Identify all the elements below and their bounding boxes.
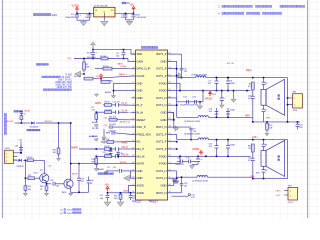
wire PVDD rail ch2 [172, 156, 251, 164]
resistor R12 18K ch2 [96, 153, 112, 157]
svg-text:GND: GND [161, 184, 167, 188]
svg-text:28: 28 [169, 82, 171, 84]
svg-text:15: 15 [169, 177, 171, 179]
svg-text:BST2_N: BST2_N [156, 191, 166, 195]
capacitor C2 104 [121, 13, 128, 19]
wire VDD supply [93, 49, 136, 54]
wire RESET row [103, 117, 131, 124]
svg-text:4: 4 [133, 74, 134, 76]
wire avdd rail [107, 186, 132, 194]
svg-text:BST1_N: BST1_N [156, 125, 166, 129]
net label MUTE2 [45, 121, 53, 123]
svg-text:VO: VO [111, 10, 114, 12]
power port VCCIN [72, 5, 80, 12]
svg-text:1: 1 [290, 191, 291, 193]
capacitor C22 472 zobel2 [248, 152, 255, 177]
capacitor C21 100M ch2 [226, 139, 235, 157]
svg-text:C30: C30 [15, 145, 18, 147]
power gray arrow above VDD [91, 42, 96, 50]
capacitor C9 103 [172, 127, 197, 140]
svg-text:GND: GND [137, 176, 143, 180]
label dual channel mode [36, 63, 48, 65]
svg-text:1K: 1K [40, 189, 43, 191]
ground below U1 [101, 17, 108, 26]
svg-text:NC: NC [24, 113, 27, 115]
svg-text:C13 475: C13 475 [105, 153, 112, 155]
resistor R10 18K ch1 [96, 109, 112, 113]
svg-text:16: 16 [169, 169, 171, 171]
svg-text:FREQ: FREQ [122, 142, 128, 144]
net label MUTE1 [6, 121, 31, 124]
svg-text:SP1: SP1 [293, 92, 298, 94]
note transistor sub 2 [60, 212, 81, 215]
svg-text:IN_P: IN_P [137, 103, 143, 107]
svg-text:18: 18 [169, 155, 171, 157]
svg-text:102: 102 [208, 83, 212, 85]
svg-text:1: 1 [294, 98, 295, 100]
resistor R8 18K ch1 [105, 102, 112, 107]
svg-text:9014: 9014 [67, 210, 73, 212]
svg-text:R12 NC: R12 NC [92, 128, 99, 130]
connector P4 speaker2 [284, 185, 297, 204]
wire connector to diode row [13, 159, 17, 161]
svg-text:5: 5 [133, 82, 134, 84]
power port +5V [130, 3, 136, 13]
capacitor EC7 220uF/35V [65, 13, 81, 20]
svg-text:100M: 100M [230, 109, 235, 111]
svg-text:7: 7 [133, 96, 134, 98]
svg-text:AGND: AGND [105, 91, 112, 94]
svg-text:EC4: EC4 [87, 53, 91, 55]
svg-text:R11 47K: R11 47K [109, 117, 117, 119]
inductor L2 [177, 75, 246, 79]
label mute circuit [27, 129, 40, 131]
svg-text:+: + [201, 158, 203, 161]
speaker SP1 [261, 79, 285, 119]
svg-text:10R: 10R [269, 128, 273, 130]
svg-text:103: 103 [299, 127, 302, 129]
wire OTW row [95, 66, 132, 70]
svg-text:4.: 4. [218, 12, 220, 16]
capacitor EC1 470uF/10V [131, 13, 147, 19]
label PVDD ch2 [192, 149, 203, 155]
svg-text:+5V: +5V [67, 58, 71, 60]
capacitor C12 electrolytic [177, 76, 204, 107]
svg-text:FAULT: FAULT [137, 74, 146, 78]
ground decoupling ch2 [190, 165, 198, 169]
svg-text:C17: C17 [107, 167, 110, 169]
svg-text:JP14: JP14 [288, 202, 293, 204]
capacitor C16c filter [116, 152, 123, 156]
label vertical caption left border [4, 114, 6, 135]
svg-text:OUT2_N: OUT2_N [156, 169, 167, 173]
resistor R40 10K column [53, 122, 61, 161]
svg-text:105: 105 [132, 198, 135, 200]
svg-text:L5 RB1047-102M: L5 RB1047-102M [192, 181, 208, 183]
wire Q1 collector [44, 160, 52, 173]
svg-text:OUT2_N: OUT2_N [156, 176, 167, 180]
net label AVDD [124, 189, 130, 192]
svg-text:14: 14 [132, 147, 134, 149]
svg-text:OUT1_P: OUT1_P [156, 67, 167, 71]
capacitor C10 bst cap [172, 178, 179, 184]
capacitor C9b 100M [226, 108, 235, 118]
wire speaker2 bottom rail [250, 176, 288, 179]
svg-text:R15 47K: R15 47K [102, 139, 110, 141]
svg-text:29: 29 [169, 74, 171, 76]
wire speaker2 top rail [246, 139, 288, 141]
svg-text:13: 13 [132, 140, 134, 142]
diode D11 1N4148 [17, 152, 28, 168]
power +5V avdd [105, 185, 110, 193]
svg-text:C12 475: C12 475 [105, 109, 112, 111]
svg-text:OUT2_P: OUT2_P [156, 147, 167, 151]
ground EC2 [220, 104, 224, 108]
svg-text:VDD: VDD [137, 52, 143, 56]
net label LSP+ [252, 137, 258, 139]
svg-text:3: 3 [6, 161, 7, 163]
note transistor sub 1 [60, 209, 81, 212]
svg-text:21: 21 [169, 133, 171, 135]
net label LSP- connector [276, 195, 281, 197]
svg-text:100M: 100M [230, 144, 235, 146]
transistor Q2 8050 [62, 179, 73, 194]
svg-text:14: 14 [169, 184, 171, 186]
wire PVDD rail ch1 [172, 83, 251, 91]
inductor bead top speaker2 [262, 140, 267, 151]
net label LSP+ connector [276, 190, 282, 192]
svg-text:MUTE2: MUTE2 [45, 121, 53, 123]
capacitor EC3 ch2 [196, 156, 203, 164]
svg-text:104: 104 [81, 181, 84, 183]
svg-text:TPA3117: TPA3117 [149, 200, 159, 203]
svg-text:RSP-: RSP- [245, 116, 251, 118]
power +5V label fault [95, 73, 128, 78]
ground arrow right ch1 [176, 73, 182, 78]
wire U1 output rail [115, 13, 134, 15]
power +5V label row gain [67, 58, 128, 60]
svg-text:2: 2 [294, 105, 295, 107]
svg-text:9014: 9014 [34, 172, 38, 174]
svg-text:TPA3117: TPA3117 [132, 200, 142, 203]
svg-text:30: 30 [169, 67, 171, 69]
svg-text:OUT1_N: OUT1_N [156, 96, 167, 100]
svg-text:GND: GND [137, 89, 143, 93]
capacitor C16b 475 ch2 [112, 154, 132, 158]
wire speaker2 right vertical [287, 140, 289, 179]
resistor R13 47K vertical [92, 156, 99, 171]
svg-text:L8: L8 [265, 145, 267, 147]
svg-text:3: 3 [133, 67, 134, 69]
svg-text:103: 103 [191, 197, 194, 199]
capacitor C19 103 [172, 176, 188, 192]
net label RSP+ [246, 70, 253, 72]
ground arrow down bst2 [172, 180, 180, 186]
note 10R 2W [227, 63, 234, 65]
capacitor EC4 470uF/16V [87, 50, 98, 60]
svg-text:LSP+: LSP+ [276, 190, 282, 192]
svg-text:+PVDD: +PVDD [192, 149, 200, 151]
svg-text:IN_P: IN_P [122, 103, 128, 105]
svg-text:6: 6 [133, 89, 134, 91]
svg-text:NC: NC [137, 140, 141, 144]
svg-text:AGND: AGND [92, 121, 98, 124]
resistor branch mute [20, 111, 31, 123]
wire speaker1 right vertical [287, 78, 289, 122]
svg-text:104: 104 [116, 56, 119, 58]
svg-text:DPW_CLIP: DPW_CLIP [137, 67, 151, 71]
wire into GAIN pin [117, 59, 132, 66]
capacitor C33 104 [46, 180, 64, 187]
svg-text:+5V: +5V [95, 76, 99, 78]
svg-text:20: 20 [169, 140, 171, 142]
svg-text:472: 472 [248, 98, 251, 100]
svg-text:MUTE: MUTE [120, 162, 127, 164]
resistor R4 NC [101, 79, 114, 84]
speaker SP2 [256, 140, 285, 176]
svg-text:OUT2_P: OUT2_P [156, 140, 167, 144]
svg-text:C15: C15 [186, 157, 191, 159]
svg-text:R5 20K: R5 20K [100, 56, 107, 58]
svg-text:103: 103 [184, 71, 187, 73]
capacitor C6 103 [180, 54, 188, 78]
label small signal note [98, 173, 113, 175]
svg-text:8: 8 [133, 104, 134, 106]
svg-text:BST1_P: BST1_P [156, 52, 166, 56]
svg-text:104: 104 [56, 186, 59, 188]
gain table note [42, 73, 73, 90]
svg-text:16: 16 [132, 162, 134, 164]
note line 3 [218, 5, 305, 9]
gray arrow left [75, 71, 85, 77]
svg-text:LSP-: LSP- [276, 195, 281, 197]
svg-text:104: 104 [113, 167, 116, 169]
resistor R21 1K3 [114, 193, 122, 201]
svg-text:AGND: AGND [98, 168, 104, 171]
svg-text:Q1: Q1 [60, 210, 64, 212]
wire GND pins to AGND [113, 83, 132, 94]
svg-text:OUT1_N: OUT1_N [156, 103, 167, 107]
svg-text:103: 103 [184, 186, 187, 188]
svg-text:L6: L6 [265, 83, 267, 85]
svg-text:R2 NC: R2 NC [103, 66, 109, 68]
svg-text:MUTE: MUTE [137, 162, 145, 166]
label AGND column [92, 135, 98, 141]
net label AMPR [71, 146, 105, 149]
svg-text:SP1: SP1 [267, 118, 271, 120]
ground below EC7 C1 [77, 20, 90, 25]
ground arrow under C12 C13 [198, 101, 203, 109]
svg-text:SP2: SP2 [256, 172, 260, 174]
svg-text:MUTE: MUTE [25, 111, 31, 113]
svg-text:23: 23 [169, 118, 171, 120]
svg-text:PW4148: PW4148 [17, 166, 24, 168]
net label IN1_P [122, 103, 128, 105]
capacitor EC2 100uF/35V [212, 90, 226, 104]
svg-text:R8 18: R8 18 [105, 102, 110, 104]
capacitor C14 electrolytic ch2 [175, 157, 196, 166]
svg-text:9: 9 [133, 111, 134, 113]
svg-text:R9 18: R9 18 [105, 146, 110, 148]
svg-text:+5V: +5V [103, 118, 107, 120]
svg-text:IN2_P: IN2_P [122, 147, 129, 149]
svg-text:IN_M: IN_M [122, 111, 128, 113]
svg-text:11: 11 [132, 126, 134, 128]
svg-text:27: 27 [169, 89, 171, 91]
wire MUTE to pin [79, 162, 132, 164]
label PVDD ch1 [205, 91, 213, 101]
svg-text:IN2_P: IN2_P [137, 147, 145, 151]
inductor L5 [177, 176, 253, 183]
resistor R14 10R zobel floor1 [265, 122, 273, 136]
wire MUTE from Q2 collector [70, 122, 80, 179]
svg-text:12: 12 [132, 133, 134, 135]
svg-text:U1 HT7550-SH: U1 HT7550-SH [94, 6, 108, 8]
svg-text:FAULTx: FAULTx [119, 73, 128, 76]
ground decoupling ch1 [231, 90, 236, 102]
capacitor C16 102 [208, 108, 218, 118]
svg-text:10: 10 [132, 118, 134, 120]
capacitor C1 104 [85, 13, 91, 20]
resistor R15 47K freq row [101, 139, 132, 144]
svg-text:AGND: AGND [89, 135, 96, 138]
resistor R16 NC zobel2 [248, 144, 254, 152]
label input voltage note [34, 13, 58, 17]
resistor R37 base Q1 [28, 175, 40, 179]
capacitor C41 104 [100, 193, 110, 201]
svg-text:25: 25 [169, 104, 171, 106]
wire OUT1N bus [172, 98, 178, 117]
label caption above mute row [14, 110, 23, 112]
wire speaker1 top rail [246, 77, 288, 79]
capacitor C8 100M [226, 77, 235, 91]
resistor R38 emitter Q1 [40, 182, 49, 196]
svg-text:13: 13 [169, 191, 171, 193]
svg-text:10U 2W: 10U 2W [227, 63, 234, 65]
regulator U1 HT7550-SH [94, 6, 115, 17]
svg-text:VD1N4148: VD1N4148 [30, 126, 39, 128]
capacitor C17 104 [98, 167, 132, 174]
svg-text:IN2_M: IN2_M [137, 154, 146, 158]
label AGND mid [89, 129, 106, 140]
svg-text:1: 1 [6, 154, 7, 156]
svg-text:24V: 24V [52, 13, 57, 17]
svg-text:+PVDD: +PVDD [205, 98, 213, 100]
connector CN17 [5, 148, 17, 163]
ground agnd small above ampl [95, 93, 99, 96]
wire GND pins right [172, 113, 174, 120]
diode D7 1N4148 [30, 121, 71, 128]
svg-text:FREQ_ADV: FREQ_ADV [137, 132, 152, 136]
svg-text:10K: 10K [53, 152, 57, 154]
svg-text:470uF/10V: 470uF/10V [137, 17, 147, 19]
svg-text:VCCIN: VCCIN [72, 5, 80, 8]
svg-text:2: 2 [6, 157, 7, 159]
svg-text:17: 17 [132, 169, 134, 171]
ground below R7 [92, 121, 98, 127]
svg-text:GND: GND [137, 169, 143, 173]
svg-text:PVDD: PVDD [159, 154, 167, 158]
svg-text:AMPL: AMPL [95, 102, 102, 105]
capacitor C15b filter [102, 149, 112, 156]
svg-text:8050: 8050 [67, 213, 73, 215]
svg-text:15: 15 [132, 155, 134, 157]
capacitor C30 [15, 145, 23, 154]
wire mute left vertical [25, 160, 28, 179]
power 12V [19, 140, 23, 153]
transistor Q1 9014 [34, 169, 49, 182]
svg-text:L3 RB1047-102M: L3 RB1047-102M [184, 121, 200, 123]
svg-text:C11 475: C11 475 [113, 102, 120, 104]
inductor L3 [177, 116, 253, 124]
svg-text:RESET: RESET [137, 118, 146, 122]
svg-text:24: 24 [169, 111, 171, 113]
wire OUT2P bus [172, 134, 178, 149]
svg-text:2: 2 [290, 196, 291, 198]
resistor R36 1K [25, 157, 45, 162]
svg-text:20: 20 [132, 191, 134, 193]
ground below R21 [117, 201, 123, 207]
ground below C41 [104, 201, 110, 207]
capacitor C31 103 label [172, 194, 195, 200]
resistor R7 47K vertical [92, 107, 98, 122]
svg-text:MUTE: MUTE [72, 174, 78, 176]
capacitor C7 102 [208, 77, 219, 91]
svg-text:R36 1K: R36 1K [27, 157, 34, 159]
inductor bead top speaker1 [262, 78, 267, 90]
wire speaker1 bottom rail [245, 116, 300, 123]
svg-text:100uF/25V 100uF/25V: 100uF/25V 100uF/25V [180, 105, 199, 107]
svg-text:+5V: +5V [105, 185, 110, 187]
svg-text:26: 26 [169, 96, 171, 98]
ground arrow left gnd pins [124, 171, 132, 181]
label AGND [105, 91, 116, 98]
svg-text:AMPR: AMPR [71, 146, 78, 149]
svg-text:GND: GND [161, 111, 167, 115]
resistor R5 20K [100, 56, 108, 60]
svg-text:100uF/25V: 100uF/25V [175, 164, 185, 166]
svg-text:C33: C33 [50, 180, 53, 182]
capacitor C4 104 [116, 50, 125, 60]
inductor bead bottom speaker1 [262, 105, 267, 122]
svg-text:L7: L7 [265, 110, 267, 112]
capacitor C25 103 zobel floor1 [296, 122, 303, 130]
svg-text:RESET 11: RESET 11 [120, 121, 131, 123]
svg-text:26dB 47K 75K: 26dB 47K 75K [57, 86, 73, 89]
capacitor C44 NC [87, 177, 94, 193]
svg-text:L9: L9 [265, 170, 267, 172]
inductor bead bottom speaker2 [262, 166, 267, 178]
svg-text:1K3: 1K3 [114, 198, 117, 200]
ground arrow right mid [172, 113, 179, 132]
svg-text:C14: C14 [177, 157, 182, 159]
capacitor C24 472 zobel1 [248, 90, 255, 117]
svg-text:31: 31 [169, 60, 171, 62]
note line 4 [218, 12, 282, 16]
svg-text:IN2_M: IN2_M [122, 155, 129, 157]
svg-text:470: 470 [248, 86, 251, 88]
svg-text:220uF/35V: 220uF/35V [65, 17, 75, 19]
svg-text:22: 22 [169, 126, 171, 128]
svg-text:R9 20K: R9 20K [74, 76, 81, 78]
svg-text:10K: 10K [28, 189, 32, 191]
capacitor C20 102 ch2 [208, 139, 218, 157]
svg-text:19: 19 [132, 184, 134, 186]
svg-text:2: 2 [133, 60, 134, 62]
svg-text:GND: GND [161, 59, 167, 63]
label 5V regulator [122, 2, 130, 5]
ground below C2 EC1 [126, 20, 134, 25]
